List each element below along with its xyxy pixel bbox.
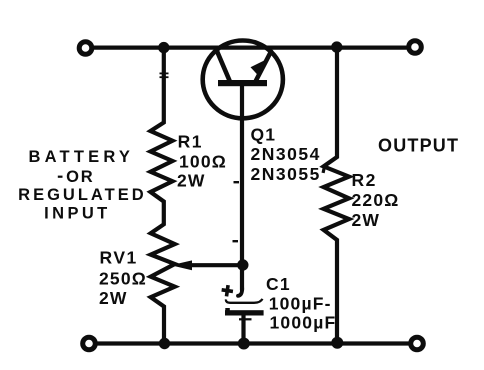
svg-text:INPUT: INPUT: [44, 205, 111, 223]
svg-text:R1: R1: [178, 132, 203, 152]
svg-text:2W: 2W: [177, 170, 206, 190]
svg-text:1000µF: 1000µF: [270, 312, 337, 332]
svg-text:2N3055: 2N3055: [251, 164, 321, 184]
svg-text:REGULATED: REGULATED: [18, 186, 146, 204]
svg-text:OR: OR: [66, 168, 94, 186]
svg-text:RV1: RV1: [100, 248, 138, 268]
svg-text:220Ω: 220Ω: [352, 190, 400, 210]
svg-text:Q1: Q1: [251, 125, 277, 145]
svg-text:C1: C1: [266, 274, 291, 294]
svg-text:250Ω: 250Ω: [99, 269, 147, 289]
svg-text:2W: 2W: [99, 288, 128, 308]
svg-text:R2: R2: [352, 170, 377, 190]
svg-text:100µF-: 100µF-: [269, 294, 332, 314]
svg-text:2N3054: 2N3054: [251, 144, 321, 164]
svg-text:BATTERY: BATTERY: [29, 148, 134, 166]
svg-text:OUTPUT: OUTPUT: [378, 136, 459, 156]
svg-text:100Ω: 100Ω: [179, 151, 227, 171]
svg-text:2W: 2W: [352, 210, 381, 230]
